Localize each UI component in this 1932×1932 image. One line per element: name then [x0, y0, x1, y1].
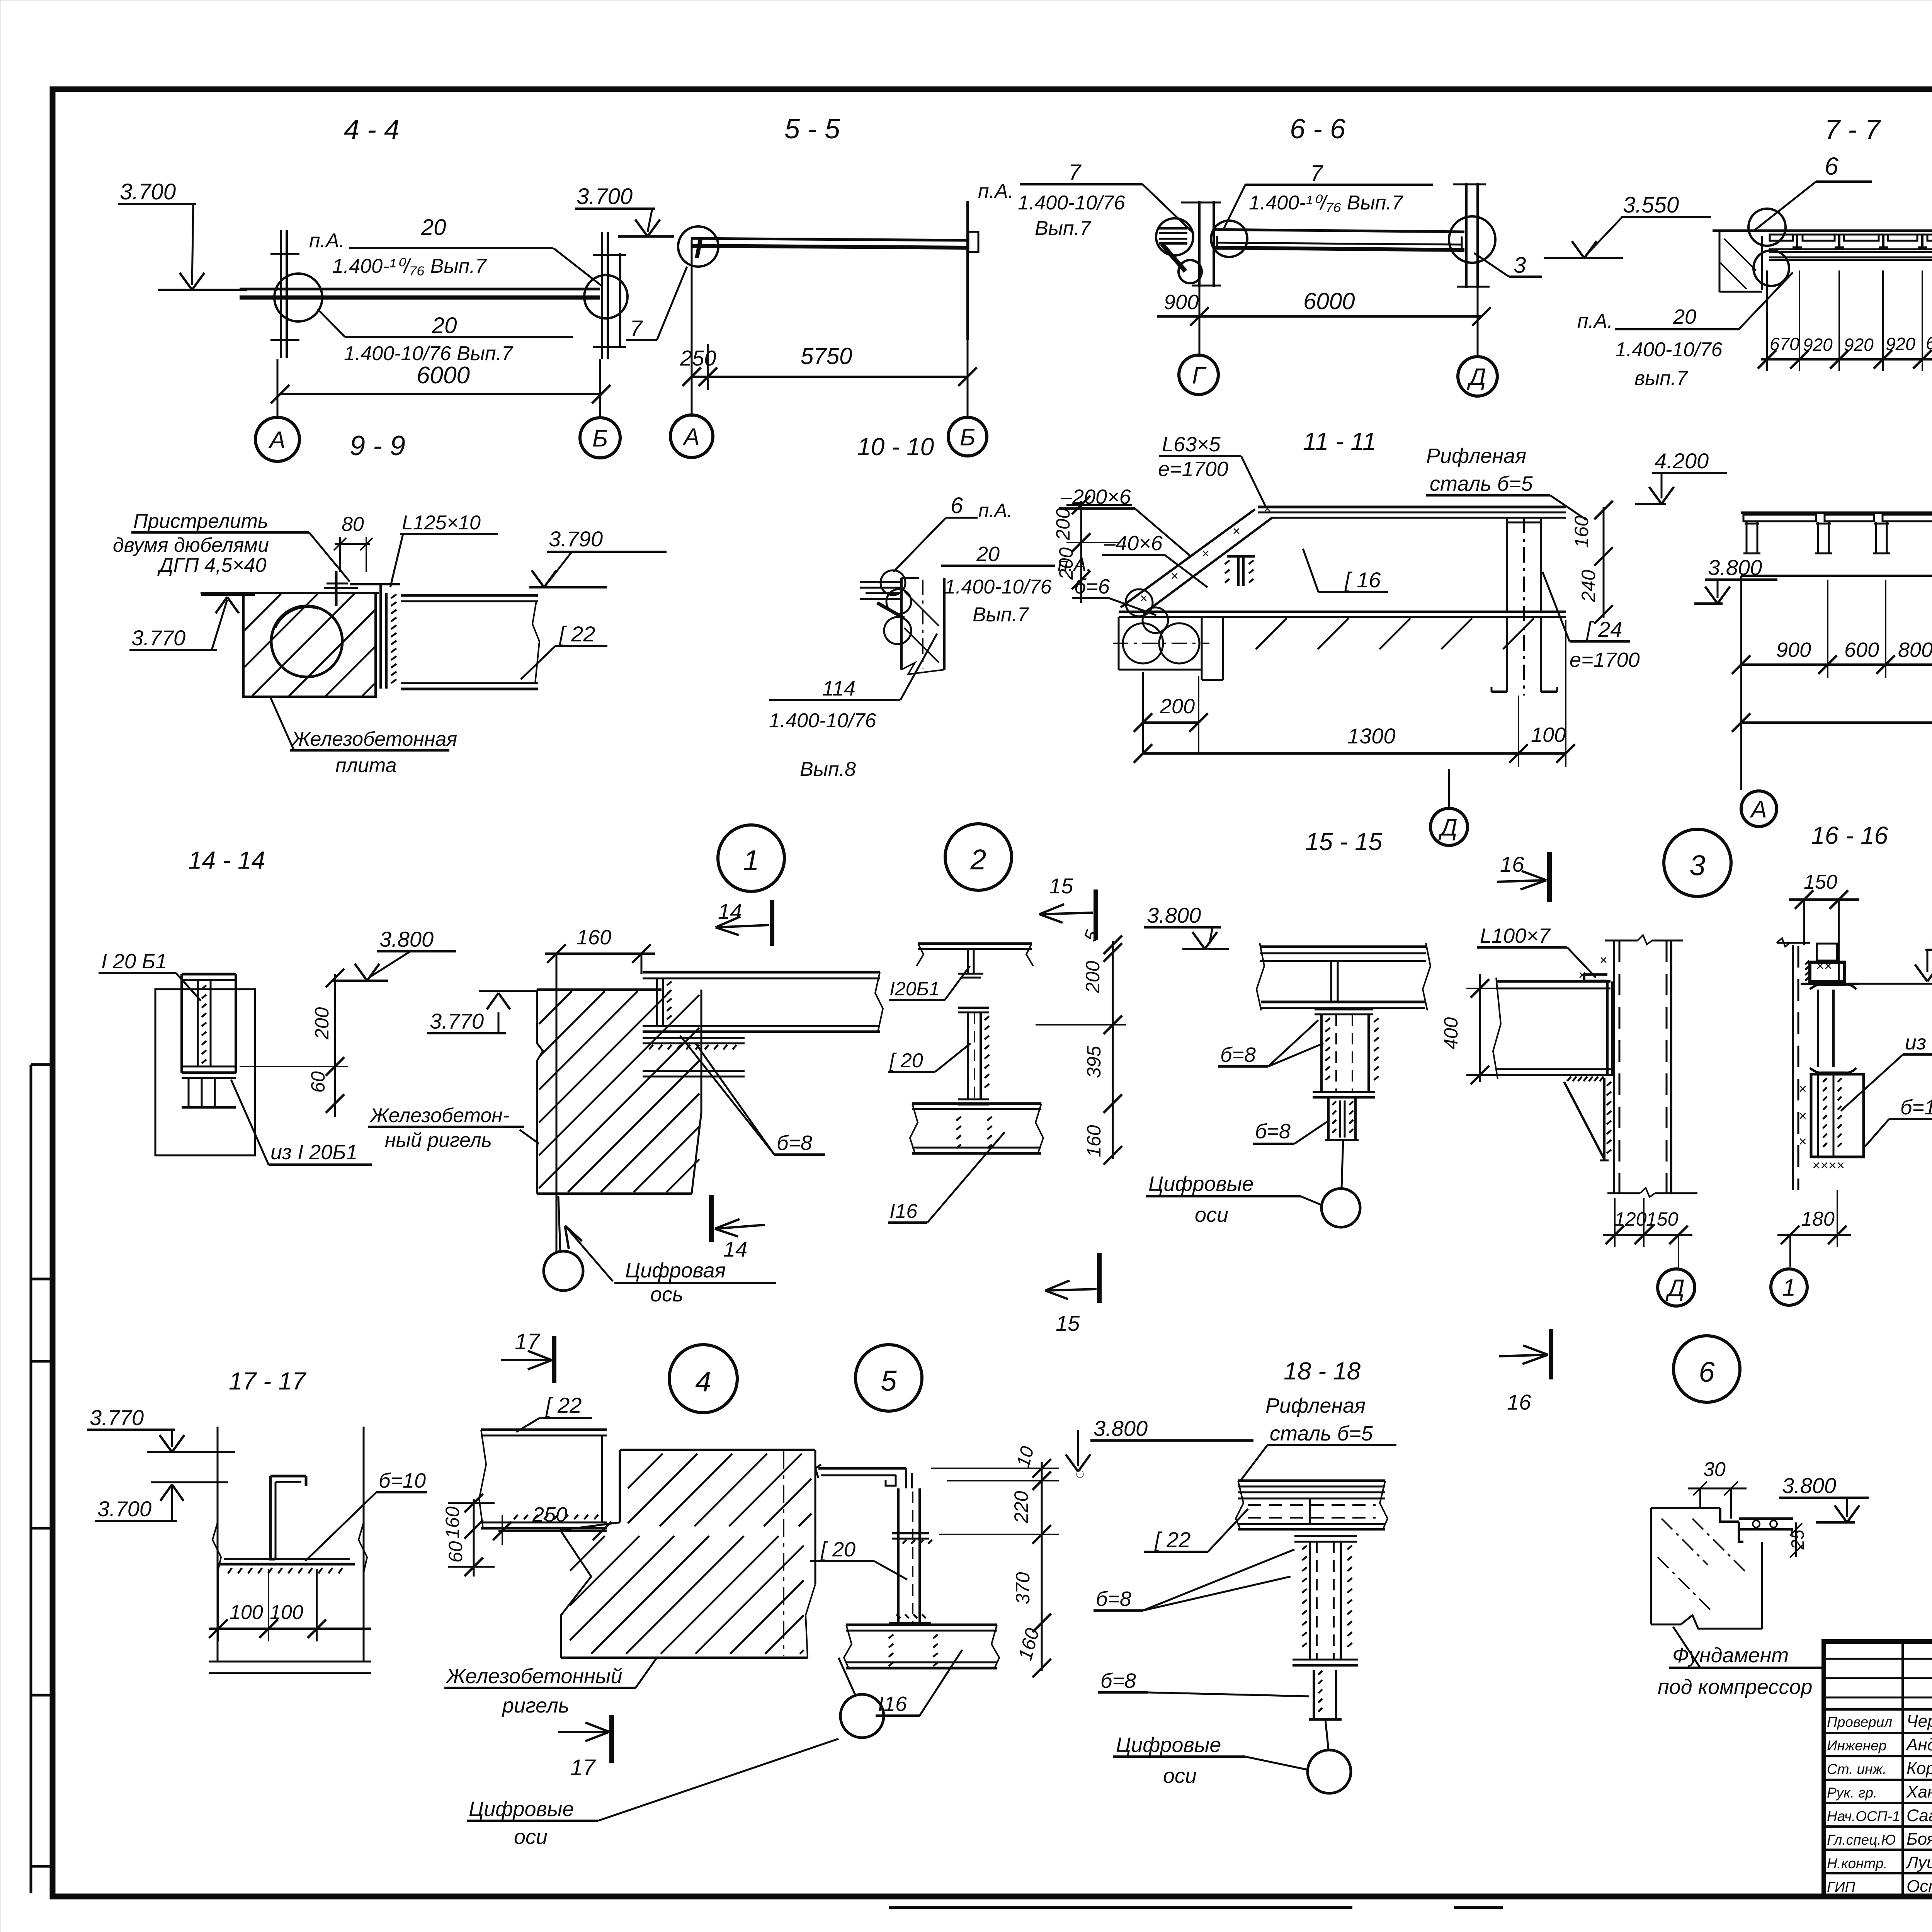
- 6-6 left column lines axis Г: [1181, 201, 1221, 287]
- 17-17 section flag 17 top: [501, 1329, 554, 1383]
- svg-text:160: 160: [1571, 515, 1592, 548]
- 11-11 elevation 3.800 right: [1694, 555, 1777, 604]
- node circle 2 big: [945, 824, 1012, 890]
- svg-text:16: 16: [1507, 1390, 1531, 1414]
- svg-text:20: 20: [432, 313, 457, 338]
- svg-text:10 - 10: 10 - 10: [857, 433, 934, 461]
- 15-15 hanger lower stub: [1325, 1097, 1359, 1140]
- svg-text:3.800: 3.800: [1782, 1473, 1836, 1498]
- svg-text:×: ×: [1799, 1133, 1807, 1149]
- svg-text:3.700: 3.700: [577, 184, 633, 209]
- 15-15 label I20Б1 left: [889, 966, 970, 1000]
- 6-detail dim 30: [1688, 1458, 1747, 1519]
- svg-text:L125×10: L125×10: [402, 512, 481, 534]
- 4-4 lower weld label 20 / 1.400-10/76 Вып.7: [318, 309, 573, 365]
- 15-15 middle column C20: [958, 1008, 989, 1104]
- svg-text:Саакьянц: Саакьянц: [1906, 1806, 1932, 1825]
- 15-15 label C20: [888, 1043, 971, 1072]
- 11-11 grid axis circle Д: [1430, 769, 1468, 845]
- svg-text:L100×7: L100×7: [1480, 924, 1551, 947]
- 4-detail section flag 17 bottom: [558, 1715, 612, 1780]
- 16-16 label б=10: [1865, 1096, 1932, 1147]
- 15-15 digital axis note and circle: [1146, 1140, 1360, 1227]
- svg-text:5750: 5750: [801, 343, 852, 369]
- svg-text:1.400-10/76: 1.400-10/76: [769, 709, 876, 732]
- svg-text:Железобетонная: Железобетонная: [291, 728, 457, 750]
- svg-text:1: 1: [1782, 1274, 1796, 1301]
- svg-text:200: 200: [311, 1007, 333, 1040]
- 15-15 labels б=8: [1218, 1020, 1328, 1144]
- 17-17 elevation 3.700: [95, 1482, 228, 1521]
- svg-text:100: 100: [270, 1601, 303, 1624]
- section 6-6 title: [1290, 114, 1346, 145]
- svg-text:e=1700: e=1700: [1570, 648, 1640, 672]
- 6-detail note Фундамент под компрессор: [1658, 1627, 1823, 1699]
- svg-text:L63×5: L63×5: [1162, 433, 1221, 456]
- svg-text:6 - 6: 6 - 6: [1290, 114, 1346, 145]
- 11-11 elevation 4.200: [1635, 449, 1727, 504]
- 11-11 small rib -40x6: [1225, 556, 1255, 586]
- 4-4 dimension 6000: [271, 359, 611, 418]
- 14-14 elevation 3.770: [427, 991, 537, 1033]
- svg-text:200: 200: [1082, 961, 1104, 993]
- 14-14 section flag 14 bottom: [711, 1195, 765, 1261]
- section 14-14 title: [188, 846, 265, 874]
- 17-17 side boundary lines: [213, 1427, 367, 1662]
- svg-text:7 - 7: 7 - 7: [1825, 114, 1881, 145]
- svg-text:200: 200: [1160, 695, 1195, 718]
- 17-17 label б=10: [305, 1469, 427, 1561]
- svg-text:14 - 14: 14 - 14: [188, 846, 265, 874]
- 4-detail channel beam: [479, 1430, 607, 1528]
- 12-12 rib pairs below deck: [1743, 522, 1932, 553]
- svg-text:[ 20: [ 20: [889, 1049, 923, 1072]
- svg-text:7: 7: [1068, 160, 1082, 185]
- svg-text:Цифровая: Цифровая: [625, 1259, 726, 1282]
- 11-11 dims 200 200 left rotated: [1052, 496, 1132, 603]
- svg-text:3.790: 3.790: [549, 527, 603, 551]
- 15-15 left deck beam I20Б1: [917, 944, 1033, 978]
- svg-text:395: 395: [1083, 1046, 1105, 1078]
- svg-text:3.700: 3.700: [97, 1497, 151, 1521]
- svg-text:160: 160: [442, 1506, 463, 1539]
- section 15-15 title: [1305, 828, 1383, 855]
- 9-9 label C22: [521, 622, 607, 679]
- 18-18 deck I beam side view: [1236, 1481, 1388, 1529]
- 17-17 elevation 3.770: [87, 1405, 235, 1452]
- svg-text:20: 20: [421, 215, 446, 240]
- svg-text:Цифровые: Цифровые: [1116, 1733, 1221, 1757]
- 9-9 dimension 80: [334, 513, 372, 572]
- 6-6 elevation mark 3.550: [1544, 192, 1711, 258]
- svg-text:17: 17: [515, 1329, 541, 1354]
- 4-detail axis circle: [838, 1658, 884, 1738]
- section 5-5 title: [784, 114, 840, 145]
- svg-text:200: 200: [1052, 508, 1074, 541]
- svg-text:80: 80: [342, 513, 364, 536]
- 9-9 dowel pin: [324, 571, 358, 606]
- svg-text:вып.7: вып.7: [1634, 367, 1688, 389]
- 3-detail grid axis circle Д below: [1658, 1269, 1695, 1306]
- 10-10 weld circles: [881, 570, 911, 644]
- svg-text:7: 7: [630, 316, 643, 341]
- left margin fold strip: [31, 1065, 53, 1893]
- 14-14 beam elevation right: [643, 972, 883, 1077]
- 14-14 beam section pair: [155, 974, 255, 1155]
- 15-15 bottom beam I16: [910, 1104, 1043, 1153]
- svg-text:1.400-¹⁰/₇₆ Вып.7: 1.400-¹⁰/₇₆ Вып.7: [1249, 192, 1404, 214]
- svg-text:[ 22: [ 22: [545, 1393, 582, 1417]
- svg-text:17 - 17: 17 - 17: [229, 1367, 307, 1395]
- svg-text:п.А.: п.А.: [978, 180, 1014, 202]
- 5-5 elevation mark 3.700: [575, 184, 674, 236]
- svg-text:250: 250: [680, 346, 716, 370]
- 11-11 label б=6: [1072, 575, 1156, 615]
- svg-text:160: 160: [1083, 1125, 1105, 1157]
- section 16-16 title: [1811, 821, 1888, 849]
- 14-14 dimension 160 top: [545, 926, 655, 1252]
- 4-detail dims 160 60 left rotated: [442, 1494, 495, 1577]
- 16-16 section flag 16 bottom: [1499, 1329, 1551, 1414]
- svg-text:×: ×: [1799, 1081, 1807, 1097]
- svg-text:3.550: 3.550: [1623, 192, 1679, 218]
- svg-text:[ 24: [ 24: [1585, 617, 1622, 641]
- svg-text:17: 17: [570, 1755, 596, 1780]
- 14-14 label из I 20Б1: [231, 1080, 372, 1165]
- svg-text:220: 220: [1010, 1491, 1032, 1524]
- svg-text:×: ×: [1202, 546, 1209, 561]
- svg-text:18 - 18: 18 - 18: [1284, 1357, 1361, 1385]
- 3-detail label L100×7: [1477, 924, 1596, 978]
- svg-text:16: 16: [1500, 852, 1524, 876]
- svg-text:16 - 16: 16 - 16: [1811, 821, 1888, 849]
- svg-text:Д: Д: [1438, 814, 1458, 841]
- 4-4 left column: [270, 230, 299, 358]
- 18-18 label C22: [1144, 1509, 1248, 1552]
- 11-11 weld circles left: [1126, 589, 1168, 633]
- svg-text:Коротенко: Коротенко: [1906, 1759, 1932, 1778]
- 6-6 weld label 7 / 1.400-10/76 Вып.7: [1224, 161, 1433, 228]
- 11-11 label C24 e=1700: [1543, 572, 1640, 672]
- 15-15 dims 5 200 395 160: [1036, 927, 1126, 1165]
- svg-text:п.А.: п.А.: [309, 230, 345, 252]
- 6-6 weld label 114 / 1.400-10/76 Вып.8: [769, 634, 937, 781]
- svg-text:2: 2: [970, 844, 986, 876]
- svg-text:оси: оси: [1163, 1764, 1197, 1787]
- 11-11 hollow core slab below: [1113, 617, 1534, 680]
- 11-11 channel C24 right: [1507, 518, 1541, 696]
- 11-11 label C16: [1303, 549, 1388, 592]
- 4-detail note Железобетонный ригель: [444, 1658, 657, 1717]
- 11-11 note Рифленая сталь б=5: [1426, 444, 1586, 520]
- 16-16 dim 150 top: [1789, 871, 1859, 983]
- svg-text:б=10: б=10: [1900, 1096, 1932, 1119]
- 16-16 label из I 40Б1: [1841, 1031, 1932, 1111]
- 6-6 right column lines axis Д: [1453, 183, 1490, 288]
- svg-text:Рифленая: Рифленая: [1426, 444, 1526, 468]
- 5-5 detail label 7 with leader: [626, 267, 687, 341]
- 15-15 hanger column: [1313, 1009, 1379, 1097]
- 11-11 label -200×6: [1059, 485, 1191, 556]
- node circle 6 big: [1673, 1336, 1740, 1402]
- 11-11 sloped edge plate: [1121, 502, 1272, 613]
- 14-14 concrete pier hatched: [537, 990, 701, 1194]
- 10-10 concrete wall hatched: [901, 578, 944, 674]
- svg-text:150: 150: [1804, 871, 1837, 893]
- svg-text:20: 20: [1673, 305, 1696, 328]
- 4-4 weld detail circle left: [274, 274, 322, 321]
- svg-text:Н.контр.: Н.контр.: [1827, 1855, 1888, 1871]
- svg-text:×: ×: [1799, 1108, 1807, 1124]
- 14-14 node circle 1 big: [718, 825, 784, 891]
- 4-detail concrete pier hatched: [560, 1450, 815, 1658]
- 7-7 deck rib tees: [1791, 235, 1929, 247]
- 18-18 label б=8 lower: [1098, 1669, 1309, 1696]
- svg-text:6: 6: [1825, 152, 1838, 180]
- 4-detail digital axis note: [467, 1739, 838, 1849]
- svg-text:ось: ось: [650, 1283, 683, 1306]
- 15-15 section flag 15 top: [1039, 874, 1096, 940]
- svg-text:200: 200: [1055, 547, 1077, 580]
- svg-text:Цифровые: Цифровые: [1148, 1172, 1253, 1196]
- svg-text:6000: 6000: [417, 362, 470, 389]
- svg-text:б=8: б=8: [1096, 1587, 1131, 1611]
- 4-4 weld detail circle right: [584, 275, 628, 318]
- 4-detail dim 250 inside: [493, 1503, 611, 1545]
- svg-text:3.770: 3.770: [90, 1405, 144, 1430]
- svg-text:60: 60: [445, 1541, 466, 1563]
- 6-6 beam channel: [1214, 230, 1464, 250]
- 11-11 channel C24 lower leg: [1492, 617, 1557, 692]
- svg-text:400: 400: [1440, 1017, 1462, 1049]
- svg-text:Д: Д: [1665, 1275, 1685, 1301]
- 9-9 elevation mark 3.770: [129, 595, 255, 650]
- svg-text:Вып.8: Вып.8: [800, 758, 856, 781]
- svg-text:сталь б=5: сталь б=5: [1430, 472, 1533, 495]
- svg-text:Б: Б: [592, 425, 608, 452]
- svg-text:плита: плита: [335, 754, 397, 777]
- 9-9 elevation mark 3.790: [529, 527, 667, 587]
- svg-text:10: 10: [1013, 1444, 1038, 1469]
- 17-17 bottom lines: [209, 1662, 371, 1673]
- 11-11 bottom chord: [1119, 612, 1566, 617]
- svg-text:370: 370: [1012, 1572, 1034, 1604]
- 4-detail label C22: [516, 1393, 592, 1432]
- 15-15 elevation 3.800: [1144, 903, 1229, 949]
- node circle 4 big: [669, 1345, 737, 1413]
- 15-15 section flag 15 bottom: [1045, 1253, 1099, 1335]
- 15-15 label I16 left: [888, 1132, 1005, 1223]
- svg-text:I: I: [694, 232, 703, 264]
- svg-text:I16: I16: [878, 1692, 907, 1716]
- 6-detail anchor angle with bolt holes: [1739, 1519, 1793, 1542]
- 7-7 dimension row 670 920 920 920 670: [1758, 270, 1932, 371]
- svg-text:[ 22: [ 22: [558, 622, 595, 646]
- 6-6 grid axis circle Г: [1179, 355, 1218, 395]
- 14-14 label I 20 Б1: [99, 950, 201, 1001]
- svg-text:×: ×: [1578, 968, 1586, 983]
- svg-text:100: 100: [230, 1601, 263, 1624]
- svg-text:Нач.ОСП-1: Нач.ОСП-1: [1827, 1808, 1900, 1824]
- 14-14 elevation 3.800: [332, 927, 456, 981]
- 16-16 dim 180 bottom: [1777, 1190, 1851, 1267]
- svg-text:б=10: б=10: [379, 1469, 426, 1492]
- svg-text:под компрессор: под компрессор: [1658, 1675, 1812, 1699]
- svg-text:120: 120: [1614, 1208, 1647, 1230]
- svg-text:20: 20: [976, 543, 1000, 566]
- 3-detail angle connection top: [1578, 953, 1607, 983]
- 18-18 note Рифленая сталь б=5: [1240, 1394, 1396, 1482]
- 18-18 label б=8 upper: [1094, 1549, 1294, 1611]
- svg-text:14: 14: [723, 1237, 747, 1261]
- 3-detail column verticals: [1605, 935, 1697, 1197]
- svg-text:900: 900: [1776, 638, 1811, 662]
- 11-11 dimension 200 bottom: [1134, 672, 1208, 753]
- 5-5 right end plate with hatch: [968, 201, 978, 340]
- svg-text:[ 22: [ 22: [1154, 1527, 1190, 1552]
- svg-text:1: 1: [743, 844, 759, 876]
- 16-16 lower connection box: [1799, 1074, 1864, 1173]
- 6-detail elevation 3.800: [1779, 1473, 1869, 1522]
- 10-10 beam stub end: [860, 582, 904, 618]
- svg-text:Вып.7: Вып.7: [973, 604, 1029, 626]
- 14-14 digital axis circle and note: [544, 1196, 776, 1306]
- svg-text:двумя дюбелями: двумя дюбелями: [113, 534, 269, 556]
- 6-6 thick weld diagonal: [1162, 244, 1185, 271]
- 14-14 section flag 14 top: [716, 899, 772, 946]
- 11-11 label L63×5 e=1700: [1158, 433, 1266, 507]
- 5-5 grid axis circle А: [670, 415, 713, 457]
- svg-text:б=8: б=8: [1255, 1120, 1291, 1143]
- svg-text:160: 160: [1014, 1626, 1044, 1663]
- 5-detail dim column 10 220 370 160: [931, 1444, 1059, 1677]
- svg-text:ный ригель: ный ригель: [385, 1129, 492, 1151]
- 3-detail dim 400 left: [1440, 974, 1498, 1084]
- 3-detail beam from left: [1493, 978, 1614, 1079]
- svg-text:15 - 15: 15 - 15: [1305, 828, 1383, 855]
- 5-5 weld label п.А. 7 / 1.400-10/76 Вып.7: [978, 160, 1192, 240]
- 16-16 anchor bolt box: [1816, 944, 1837, 974]
- 12-12 dimension 6000: [1732, 576, 1932, 790]
- svg-text:5: 5: [1080, 927, 1103, 944]
- svg-text:Осташевский: Осташевский: [1906, 1877, 1932, 1896]
- svg-text:б=8: б=8: [777, 1131, 812, 1155]
- 12-12 grid axis circle А: [1741, 791, 1777, 827]
- 18-18 digital axis note and circle: [1113, 1719, 1351, 1793]
- svg-text:Проверил: Проверил: [1827, 1714, 1892, 1730]
- svg-text:1.400-10/76: 1.400-10/76: [1018, 192, 1125, 214]
- 9-9 channel beam C22: [401, 595, 539, 689]
- 14-14 note Железобетонный ригель: [368, 1104, 539, 1151]
- 3-detail dims 120 150 bottom: [1603, 1198, 1692, 1269]
- 6-6 right weld circle: [1211, 221, 1247, 257]
- svg-text:Г: Г: [1192, 362, 1207, 389]
- signature table grid: [1824, 1641, 1932, 1896]
- 16-16 wall column lines: [1777, 938, 1810, 1190]
- svg-text:800: 800: [1898, 638, 1932, 662]
- section 10-10 title: [857, 433, 934, 461]
- svg-text:1.400-10/76: 1.400-10/76: [1615, 338, 1723, 361]
- svg-text:1.400-¹⁰/₇₆ Вып.7: 1.400-¹⁰/₇₆ Вып.7: [332, 255, 487, 277]
- signature table role names: [1827, 1706, 1932, 1896]
- 17-17 zed channel section: [270, 1476, 306, 1559]
- 7-7 weld circles at wall: [1748, 209, 1789, 286]
- 11-11 label -40×6: [1102, 532, 1207, 587]
- 6-6 dimension 6000: [1199, 287, 1491, 356]
- svg-text:15: 15: [1056, 1311, 1080, 1335]
- 16-16 grid axis circle 1 below: [1771, 1269, 1807, 1305]
- 7-7 channel under deck: [1769, 249, 1932, 260]
- svg-text:[ 20: [ 20: [820, 1538, 855, 1561]
- svg-text:Б: Б: [960, 424, 975, 451]
- 6-6 small circle lower left: [1179, 260, 1202, 283]
- 10-10 weld label 20 п.А. 1.400-10/76 Вып.7: [941, 543, 1092, 626]
- svg-text:I 20 Б1: I 20 Б1: [101, 950, 167, 973]
- svg-text:Железобетон-: Железобетон-: [369, 1104, 509, 1127]
- 12-12 dimension row 900 600 800 1100 1100 380 920 100: [1732, 580, 1932, 678]
- svg-text:Луценко: Луценко: [1905, 1853, 1932, 1872]
- svg-text:4 - 4: 4 - 4: [344, 114, 400, 145]
- svg-text:1.400-10/76: 1.400-10/76: [944, 576, 1052, 598]
- svg-text:Рук. гр.: Рук. гр.: [1827, 1785, 1877, 1801]
- svg-text:1.400-10/76 Вып.7: 1.400-10/76 Вып.7: [344, 342, 514, 365]
- svg-text:××××: ××××: [1812, 1157, 1845, 1173]
- svg-text:6000: 6000: [1303, 288, 1355, 314]
- svg-text:оси: оси: [514, 1825, 548, 1849]
- svg-text:100: 100: [1531, 723, 1566, 747]
- svg-text:Гл.спец.Ю: Гл.спец.Ю: [1827, 1832, 1896, 1848]
- svg-text:15: 15: [1049, 874, 1073, 898]
- svg-text:3.800: 3.800: [379, 927, 434, 951]
- 4-4 right column: [593, 232, 626, 359]
- title block outer rectangle: [1824, 1641, 1932, 1896]
- svg-text:3: 3: [1514, 253, 1526, 278]
- 5-detail elevation 3.800: [1066, 1416, 1253, 1478]
- 9-9 label L125×10: [390, 512, 498, 587]
- svg-text:Чернявская: Чернявская: [1906, 1712, 1932, 1731]
- svg-text:3.800: 3.800: [1147, 903, 1201, 927]
- 4-4 upper weld label 20 / 1.400-10/76 Вып.7: [309, 215, 603, 287]
- svg-text:Рифленая: Рифленая: [1265, 1394, 1366, 1417]
- svg-text:п.А.: п.А.: [1577, 310, 1613, 332]
- svg-text:7: 7: [1310, 161, 1324, 186]
- 6-detail concrete foundation hatched: [1651, 1508, 1762, 1629]
- 12-12 bottom line: [1741, 575, 1932, 577]
- svg-text:[ 16: [ 16: [1344, 568, 1381, 592]
- svg-text:25: 25: [1787, 1529, 1808, 1550]
- node circle 5 big: [855, 1345, 922, 1411]
- svg-text:Фундамент: Фундамент: [1672, 1644, 1789, 1667]
- 6-6 left stub beam of section 5-5 wall side: [1159, 228, 1187, 243]
- 7-7 left concrete wall hatched: [1713, 231, 1762, 292]
- svg-text:600: 600: [1844, 638, 1879, 662]
- 5-5 dimension 250 and 5750: [680, 240, 977, 418]
- svg-text:160: 160: [577, 926, 611, 949]
- 5-5 beam: [691, 238, 967, 248]
- 6-6 dimension 900: [1157, 291, 1209, 326]
- 6-detail dim 25 rotated: [1787, 1522, 1808, 1558]
- section 4-4 title: [344, 114, 400, 145]
- svg-text:5 - 5: 5 - 5: [784, 114, 840, 145]
- svg-text:Пристрелить: Пристрелить: [133, 510, 268, 532]
- svg-text:Ст. инж.: Ст. инж.: [1827, 1761, 1886, 1777]
- svg-text:А: А: [1749, 796, 1767, 823]
- 6-6 right end circle: [1449, 216, 1495, 263]
- svg-text:240: 240: [1578, 570, 1599, 602]
- 11-11 deck top plate: [1258, 507, 1566, 518]
- node circle 3 big: [1664, 829, 1731, 896]
- 18-18 lower stub: [1309, 1670, 1342, 1719]
